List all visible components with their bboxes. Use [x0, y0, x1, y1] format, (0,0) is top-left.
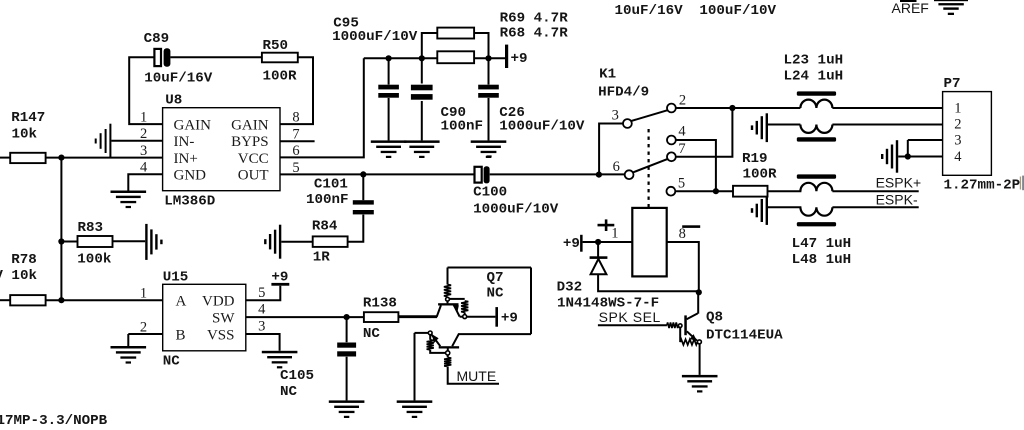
wire down to ground (U15 pin2): [127, 334, 129, 346]
connector P7 body: [943, 92, 992, 176]
node Q7b base pin: [428, 331, 432, 335]
svg-text:1: 1: [140, 110, 147, 126]
wire R50 to U8 pin8: [280, 57, 313, 124]
wire left edge to R147: [0, 157, 10, 159]
resistor Q7a base (internal): [444, 285, 451, 297]
svg-text:1000uF/10V: 1000uF/10V: [473, 202, 559, 218]
svg-text:1: 1: [140, 286, 147, 302]
wire rail to Q7a base resistor: [447, 268, 449, 285]
svg-text:L23 1uH: L23 1uH: [784, 52, 844, 68]
resistor R147: [10, 153, 45, 163]
resistor R83: [78, 236, 113, 247]
relay K1 contact pin 6: [625, 170, 634, 179]
wire Q8 emitter to ground: [699, 344, 701, 375]
wire K1 pin3 down to OUT line: [599, 124, 623, 175]
resistor R69: [437, 28, 474, 39]
wire U8 OUT to C100: [280, 173, 474, 175]
svg-text:L47 1uH: L47 1uH: [792, 236, 852, 252]
wire R69 left stub: [422, 33, 438, 58]
svg-text:10uF/16V: 10uF/16V: [615, 3, 684, 19]
svg-text:NC: NC: [163, 353, 181, 369]
capacitor C105: [337, 343, 356, 357]
svg-text:1.27mm-2P: 1.27mm-2P: [944, 177, 1021, 193]
svg-text:4: 4: [954, 149, 962, 165]
capacitor C89 (polarized): [154, 48, 170, 66]
op-amp U8 LM386D body: [163, 108, 280, 191]
wire K1 pin2 to choke L23: [676, 107, 801, 109]
resistor R68: [437, 51, 474, 63]
relay K1 contact pin 5: [667, 187, 676, 196]
partial glyph at right edge: [1020, 176, 1024, 191]
power +9 bar: [505, 45, 508, 68]
svg-text:ESPK-: ESPK-: [876, 192, 918, 208]
junction coil pin8 / D32 / Q8: [696, 289, 702, 295]
wire L23 upper to P7 pin1: [832, 107, 942, 109]
svg-text:3: 3: [140, 143, 147, 159]
node Q7a emitter junction: [463, 315, 467, 319]
relay K1 contact pin 3: [623, 119, 632, 128]
wire +9 to coil pin1: [583, 241, 633, 243]
svg-text:MUTE: MUTE: [457, 368, 497, 384]
junction R78 / input branch: [58, 297, 64, 303]
node Q8 emitter junction: [697, 340, 701, 344]
svg-text:ESPK+: ESPK+: [876, 175, 922, 191]
svg-text:VSS: VSS: [207, 327, 235, 343]
plus mark (coil pin1): [598, 219, 615, 231]
wire Q7a base to bias resistor: [449, 298, 464, 300]
wire Q7b base stub: [447, 349, 449, 351]
svg-text:4: 4: [258, 302, 266, 318]
svg-text:R147: R147: [11, 110, 45, 126]
ground (C26): [471, 140, 507, 158]
svg-text:4: 4: [678, 124, 686, 140]
ground (P7, sideways): [881, 140, 898, 173]
relay K1 contact pin 4: [667, 136, 676, 145]
arrow Q7b emitter: [432, 334, 439, 343]
wire to Q7b base node: [430, 350, 445, 353]
node Q7a base pin: [446, 297, 450, 301]
wire bus to C26: [488, 58, 490, 84]
minus mark (coil pin8): [682, 225, 700, 228]
svg-text:5: 5: [678, 175, 685, 191]
node Q7b base junction: [446, 351, 450, 355]
wire K1 pin4 down to pin5 line: [676, 140, 716, 191]
svg-text:Q7: Q7: [487, 270, 504, 286]
ground (U8 GND): [111, 191, 147, 209]
junction pin4/pin5: [713, 188, 719, 194]
junction C95 on bus: [386, 55, 392, 61]
svg-text:1000uF/10V: 1000uF/10V: [332, 29, 418, 45]
ground (AREF, cut off at top): [934, 0, 968, 15]
junction C101 on OUT line: [360, 171, 366, 177]
svg-text:3: 3: [258, 318, 265, 334]
resistor Q7b base (internal): [427, 340, 434, 350]
svg-text:7: 7: [678, 141, 685, 157]
svg-text:R83: R83: [78, 220, 104, 236]
wire C26 to ground: [488, 98, 490, 140]
svg-text:1: 1: [954, 100, 961, 116]
svg-text:7: 7: [292, 127, 299, 143]
power +9 bar (U15): [271, 283, 289, 286]
svg-text:V 10k: V 10k: [0, 268, 37, 284]
wire Q7b collector to rail: [452, 334, 531, 346]
wire C95 to ground: [388, 98, 390, 140]
junction pin2/pin7 branch: [729, 105, 735, 111]
svg-text:100uF/10V: 100uF/10V: [699, 3, 776, 19]
junction K1 pin3 branch: [596, 172, 602, 178]
diode D32: [590, 242, 608, 274]
wire K1 blade 6-7: [633, 159, 668, 173]
ground (U15 pin2): [111, 346, 147, 364]
wire U15 pin2 to ground: [128, 333, 162, 335]
wire U15 VDD to +9: [246, 286, 280, 301]
wire IN- to ground: [111, 140, 162, 142]
power +9 bar (Q7): [495, 307, 498, 327]
wire +9 bus left segment: [364, 57, 438, 59]
wire ground to L23 lower: [768, 124, 800, 126]
svg-text:IN+: IN+: [174, 151, 198, 167]
capacitor C101: [353, 200, 374, 214]
svg-text:8: 8: [679, 226, 686, 242]
wire Q8 collector up: [697, 292, 699, 313]
wire pin3 down to pin4 node: [907, 140, 909, 157]
wire C105 to ground: [346, 357, 348, 401]
wire C90 to ground: [421, 101, 423, 140]
ground (Q7b base): [397, 400, 433, 418]
svg-text:NC: NC: [487, 286, 505, 302]
svg-text:100R: 100R: [743, 167, 778, 183]
svg-text:R19: R19: [742, 151, 768, 167]
wire ground to L47 lower: [768, 206, 801, 208]
relay K1 contact pin 2: [667, 104, 676, 113]
ground (Q8 emitter): [682, 375, 718, 393]
svg-text:1: 1: [611, 226, 618, 242]
ground (L23 lower, sideways): [751, 113, 768, 142]
wire R78 to U15 pin1: [46, 299, 163, 301]
svg-text:3: 3: [954, 132, 961, 148]
svg-text:IN-: IN-: [174, 134, 195, 150]
wire Q7 top rail: [448, 267, 532, 269]
transistor Q7b base bar: [439, 346, 459, 348]
svg-text:100nF: 100nF: [441, 118, 484, 134]
arrow Q7a emitter: [453, 305, 459, 311]
svg-text:LM386D: LM386D: [164, 193, 215, 209]
overbar on AREF: [900, 0, 917, 2]
svg-text:2: 2: [679, 93, 686, 109]
wire K1 pin5 to R19: [675, 190, 733, 192]
capacitor C95: [378, 85, 399, 98]
wire SW to C105: [346, 317, 348, 342]
svg-text:10k: 10k: [12, 127, 38, 143]
svg-text:U15: U15: [163, 269, 189, 285]
junction node at R147 output: [58, 155, 64, 161]
wire ground to P7 pin4: [898, 156, 942, 158]
svg-text:17MP-3.3/NOPB: 17MP-3.3/NOPB: [0, 413, 108, 429]
junction P7 pin3/pin4: [905, 153, 911, 159]
svg-text:R50: R50: [263, 38, 289, 54]
resistor R84: [313, 236, 348, 247]
wire U15 SW to R138: [246, 316, 364, 318]
wire Q7b base to ground branch: [415, 332, 429, 334]
relay K1 actuator dashed line: [647, 129, 649, 208]
resistor Q8 base (internal): [667, 323, 679, 329]
svg-text:VDD: VDD: [202, 294, 235, 310]
resistor Q7a base-emitter (internal): [461, 301, 468, 313]
wire: [429, 335, 431, 340]
wire Q8 emitter leg: [687, 331, 697, 340]
wire Q8 internal: [679, 327, 681, 342]
svg-text:C101: C101: [314, 176, 348, 192]
svg-text:K1: K1: [599, 66, 616, 82]
wire L47 lower, ESPK- net: [832, 206, 918, 208]
capacitor C100 (polarized): [475, 155, 492, 183]
wire R147 to U8 IN+: [46, 157, 163, 159]
wire D32 anode to Q8 collector node: [598, 274, 699, 291]
relay K1 contact pin 7: [667, 152, 676, 161]
svg-text:100k: 100k: [77, 252, 112, 268]
ground (L47 lower, sideways): [751, 196, 768, 225]
svg-text:GAIN: GAIN: [174, 117, 212, 133]
wire Q7b to MUTE net: [448, 367, 499, 384]
svg-text:8: 8: [292, 110, 299, 126]
wire: [464, 312, 466, 314]
wire U8 BYPS stub: [280, 140, 315, 142]
svg-text:10uF/16V: 10uF/16V: [144, 71, 213, 87]
wire Q7a emitter to +9: [467, 316, 496, 318]
wire U8 VCC to +9 bus: [280, 58, 364, 157]
svg-text:5: 5: [258, 285, 265, 301]
power +9 bar (coil): [580, 235, 583, 252]
wire R83 to ground: [113, 240, 146, 242]
svg-text:GND: GND: [174, 168, 207, 184]
resistor R78: [10, 295, 45, 305]
wire Q7a collector leg to R138: [398, 305, 441, 316]
wire Q7b emitter leg: [432, 335, 441, 347]
svg-text:R138: R138: [363, 296, 397, 312]
transistor Q8 base bar: [684, 315, 687, 335]
svg-text:OUT: OUT: [238, 168, 269, 184]
wire coil pin8 down: [667, 242, 699, 292]
resistor Q7b base-emitter (internal): [444, 358, 451, 367]
svg-text:R84: R84: [312, 219, 338, 235]
wire bus to C95: [388, 58, 390, 84]
svg-text:C89: C89: [144, 31, 170, 47]
ground (U15 VSS): [262, 351, 298, 369]
resistor R138: [364, 312, 399, 322]
ground (R83, sideways): [145, 224, 162, 260]
wire U8 GND pin to ground: [128, 174, 162, 190]
wire C89 to R50: [170, 56, 262, 58]
svg-text:U8: U8: [165, 92, 182, 108]
wire C101 to R84: [348, 215, 364, 242]
capacitor C26: [478, 85, 499, 98]
wire bus to C90: [421, 58, 423, 83]
wire K1 pin7 up to pin2 line: [676, 108, 733, 157]
wire Q7a emitter leg: [454, 305, 460, 316]
svg-text:C100: C100: [473, 185, 507, 201]
svg-text:1000uF/10V: 1000uF/10V: [499, 118, 585, 134]
svg-text:C105: C105: [280, 368, 314, 384]
junction R83 branch: [58, 238, 64, 244]
wire rail right vertical: [530, 268, 532, 335]
svg-text:L48 1uH: L48 1uH: [792, 252, 852, 268]
svg-text:NC: NC: [363, 326, 381, 342]
svg-text:A: A: [176, 294, 187, 310]
wire: [447, 355, 449, 358]
transistor Q7a base bar: [438, 303, 458, 305]
wire R84 to ground: [281, 241, 312, 243]
svg-text:R69 4.7R: R69 4.7R: [500, 11, 569, 27]
svg-text:BYPS: BYPS: [231, 134, 269, 150]
svg-text:2: 2: [954, 117, 961, 133]
svg-text:Q8: Q8: [706, 309, 723, 325]
svg-text:+9: +9: [563, 236, 580, 252]
arrow Q8 emitter: [690, 334, 697, 341]
svg-text:P7: P7: [944, 76, 961, 92]
svg-text:+9: +9: [511, 51, 528, 67]
svg-text:GAIN: GAIN: [231, 117, 269, 133]
wire K1 blade 3-2: [631, 110, 668, 121]
junction D32 anode-side: [595, 239, 601, 245]
svg-text:R78: R78: [11, 252, 37, 268]
wire R69 right stub: [474, 33, 488, 58]
svg-text:HFD4/9: HFD4/9: [598, 84, 649, 100]
wire P7 pin3: [908, 139, 943, 141]
wire Q7a base stub: [447, 301, 449, 303]
relay K1 coil: [632, 208, 666, 277]
resistor Q8 base-emitter (internal): [680, 339, 697, 345]
svg-text:D32: D32: [557, 279, 583, 295]
wire SPK SEL net: [598, 324, 667, 326]
svg-text:SPK SEL: SPK SEL: [599, 309, 661, 325]
inductor L23/L24 common-mode choke: [797, 91, 836, 141]
svg-text:DTC114EUA: DTC114EUA: [706, 328, 783, 344]
svg-text:B: B: [176, 327, 186, 343]
junction C90 / R69 on bus: [419, 55, 425, 61]
svg-text:NC: NC: [280, 384, 298, 400]
svg-text:100nF: 100nF: [306, 192, 349, 208]
wire U8 pin1 to C89: [129, 57, 162, 124]
wire R138 to Q7: [398, 316, 437, 318]
svg-text:AREF: AREF: [892, 0, 929, 16]
wire OUT to C101: [362, 174, 364, 200]
wire to R83: [61, 241, 77, 243]
ground (U8 IN-, sideways): [95, 124, 112, 158]
svg-text:6: 6: [613, 159, 620, 175]
svg-text:+9: +9: [501, 311, 518, 327]
wire U15 VSS to ground: [246, 334, 280, 351]
svg-text:+9: +9: [271, 270, 288, 286]
ground (R84, sideways): [264, 225, 281, 259]
resistor R19: [733, 186, 768, 197]
svg-text:1R: 1R: [313, 250, 331, 266]
svg-text:SW: SW: [212, 311, 235, 327]
wire L47 upper, ESPK+ net: [832, 190, 918, 192]
wire Q8 collector leg: [687, 313, 698, 319]
wire: [597, 242, 599, 257]
svg-text:R68 4.7R: R68 4.7R: [500, 25, 569, 41]
inductor L47/L48 common-mode choke: [797, 174, 836, 226]
svg-text:L24 1uH: L24 1uH: [784, 68, 844, 84]
ground (C90): [404, 140, 440, 158]
svg-text:100R: 100R: [263, 69, 298, 85]
ground (C105): [329, 400, 365, 418]
wire +9 bus right segment: [474, 57, 506, 59]
junction C105 on SW line: [344, 314, 350, 320]
ground (C95): [371, 140, 407, 158]
wire C100 to relay K1 pin6: [490, 173, 625, 175]
IC U15 body: [163, 284, 246, 351]
svg-text:3: 3: [612, 107, 619, 123]
svg-text:VCC: VCC: [238, 151, 269, 167]
wire vertical input branch: [60, 158, 62, 301]
node Q8 base pin: [678, 324, 682, 328]
wire left edge to R78: [0, 299, 10, 301]
resistor R50: [262, 53, 298, 63]
wire R19 to choke L47: [768, 190, 802, 192]
wire down to ground (Q7b): [414, 333, 416, 401]
junction C26 / R69 on bus: [485, 55, 491, 61]
wire: [460, 316, 463, 318]
wire L23 lower to P7 pin2: [832, 124, 942, 126]
